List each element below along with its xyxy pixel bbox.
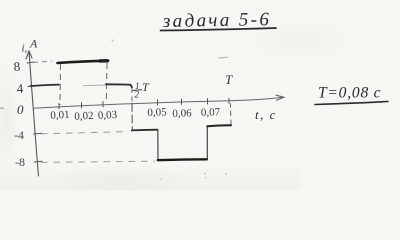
waveform segment -4 (0.04 to 0.05) — [132, 129, 158, 132]
x tick 0,01 — [58, 104, 60, 110]
faint left edge mark — [0, 107, 4, 110]
heavy end of +8 segment — [100, 59, 108, 63]
svg-text:0,03: 0,03 — [98, 109, 118, 122]
y-axis arrowhead — [26, 51, 32, 59]
dashed -8 reference — [41, 161, 155, 162]
dashed vertical at 0.03 — [105, 63, 108, 103]
svg-text:A: A — [29, 37, 38, 51]
svg-text:0,02: 0,02 — [74, 110, 94, 123]
y tick 4 — [28, 86, 34, 87]
svg-text:-4: -4 — [14, 128, 24, 142]
dashed vertical at 0.01 — [59, 64, 62, 105]
faint 4-level connector — [83, 84, 107, 87]
svg-text:0,06: 0,06 — [172, 107, 192, 120]
label 1/2 T — [135, 80, 151, 100]
dashed vertical at T — [229, 103, 232, 124]
faint smudge bottom dots — [160, 173, 227, 180]
x-axis — [33, 97, 283, 108]
solid vertical at 0.04 — [131, 104, 133, 131]
y tick -4 — [34, 132, 43, 135]
waveform segment -8 (0.05 to 0.07) — [158, 158, 207, 161]
faint speck — [112, 40, 114, 42]
svg-text:0,01: 0,01 — [50, 109, 70, 122]
dashed -4 reference — [41, 132, 128, 134]
x tick T — [228, 98, 230, 103]
waveform segment +4 (0.03 to 0.04) — [106, 84, 132, 87]
x tick 0,03 — [102, 102, 104, 108]
y tick 8 — [27, 62, 34, 63]
svg-text:T: T — [225, 72, 233, 87]
faint smudge top — [219, 56, 228, 59]
x tick 0,06 — [181, 99, 183, 104]
x tick 0,05 — [157, 100, 159, 105]
y tick -8 — [35, 160, 43, 163]
svg-text:0: 0 — [17, 102, 24, 117]
svg-text:T=0,08 c: T=0,08 c — [318, 85, 381, 102]
waveform segment +8 (0.01 to 0.03) — [58, 61, 109, 63]
underline of T=0,08 c — [315, 102, 388, 105]
svg-text:-8: -8 — [15, 155, 25, 169]
title underline — [161, 28, 277, 31]
waveform segment +4 (0 to 0.01) — [31, 85, 60, 86]
fraction bar of 1/2 T — [133, 89, 142, 92]
svg-text:t, c: t, c — [255, 107, 277, 122]
x-axis arrowhead — [276, 95, 284, 100]
y-axis — [29, 51, 39, 176]
svg-text:0,05: 0,05 — [147, 106, 167, 119]
waveform segment -4 (0.07 to T) — [207, 124, 231, 127]
x tick 0,02 — [81, 103, 83, 109]
dashed 8-level reference — [33, 61, 52, 62]
svg-text:8: 8 — [13, 59, 21, 74]
solid vertical at 0.05 — [157, 130, 159, 160]
dashed vertical upper at 0.04 — [131, 88, 133, 103]
svg-text:i,: i, — [22, 43, 28, 55]
solid vertical at 0.07 — [206, 126, 208, 159]
x tick 0,07 — [207, 99, 209, 104]
svg-text:2: 2 — [135, 90, 140, 100]
svg-text:0,07: 0,07 — [201, 106, 221, 119]
